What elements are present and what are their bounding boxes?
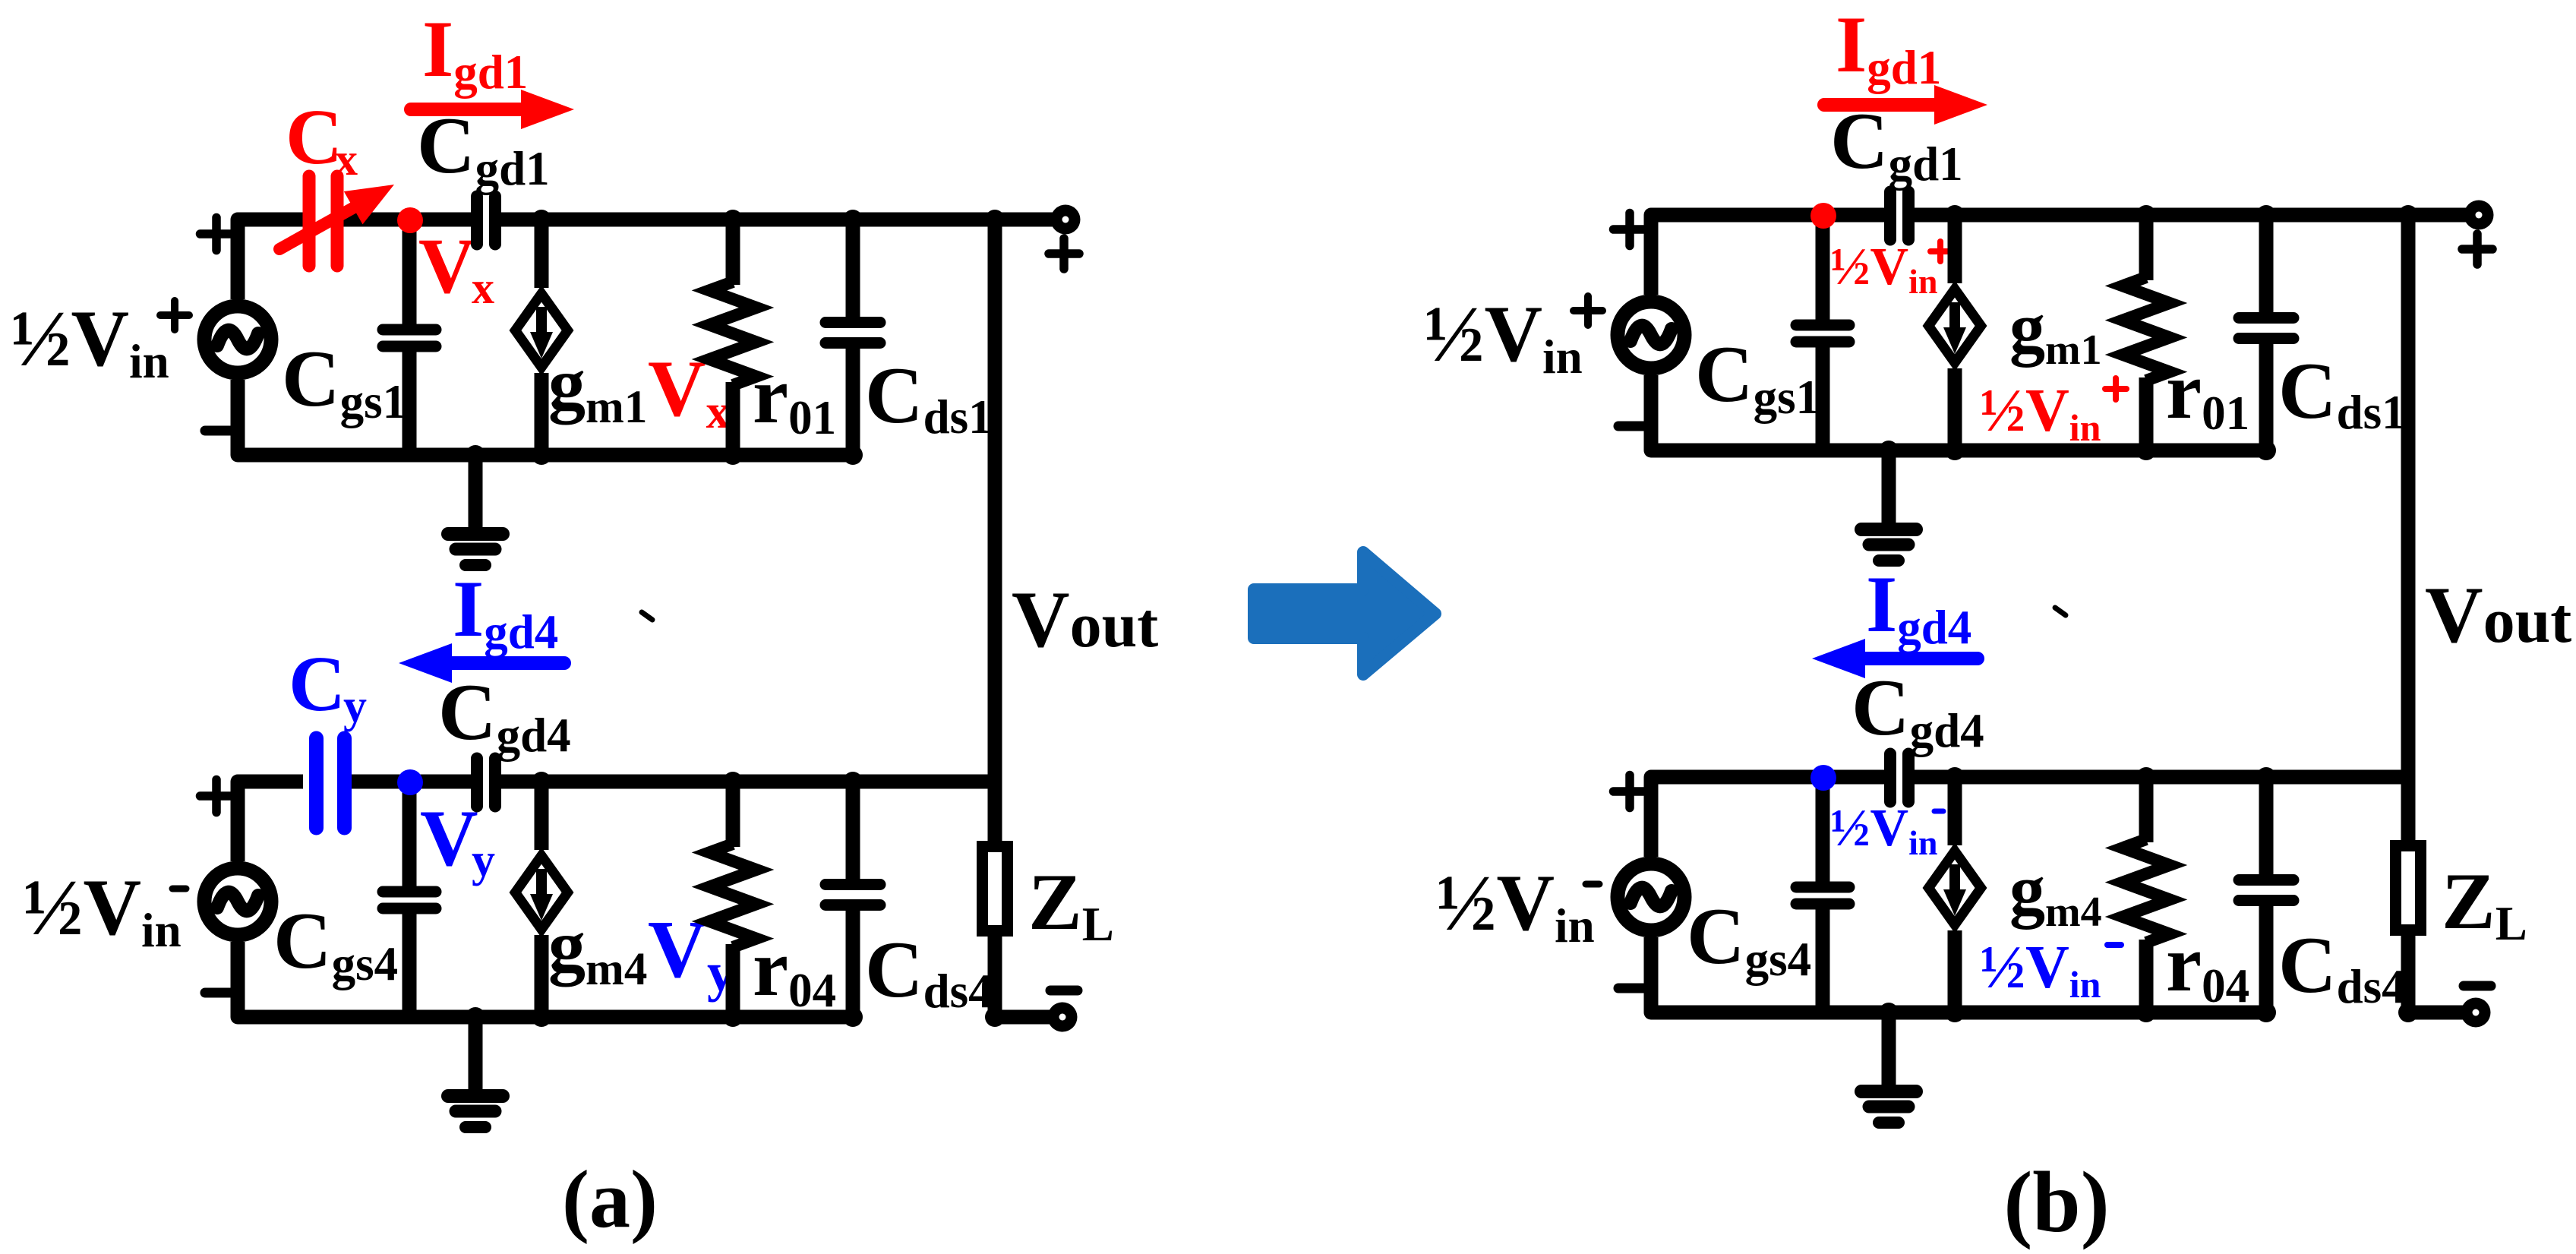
svg-text:gm1: gm1	[548, 343, 647, 433]
wire: top rail of a-circuit M1	[238, 213, 303, 227]
svg-text:Vout: Vout	[2425, 570, 2571, 659]
wire: top rail of a-circuit M4	[238, 775, 303, 789]
capacitor Cx (colored input coupling cap)	[303, 176, 316, 266]
capacitor Cds4	[846, 782, 860, 880]
wire: left branch to source a4	[238, 782, 283, 861]
wire: Vout vertical line (b)	[2401, 215, 2416, 840]
wire: left branch to source b1	[1651, 215, 1697, 295]
capacitor Cds1	[846, 220, 860, 318]
svg-text:ZL: ZL	[1028, 858, 1114, 951]
ground symbol (b4)	[1882, 1012, 1896, 1085]
polarity minus of source	[205, 426, 232, 436]
svg-text:Cds1: Cds1	[2278, 346, 2406, 439]
load impedance ZL (a)	[983, 847, 1008, 931]
polarity plus of source	[1614, 225, 1646, 234]
svg-text:r04: r04	[2166, 919, 2249, 1012]
polarity plus of source	[200, 791, 233, 801]
svg-text:gm1: gm1	[2009, 289, 2102, 374]
output terminal + (b)	[2408, 208, 2479, 223]
capacitor Cgs4	[402, 782, 417, 886]
polarity minus of source	[1618, 422, 1646, 431]
capacitor Cgd4	[1884, 754, 1896, 802]
svg-text:r01: r01	[2166, 346, 2249, 440]
svg-text:Igd1: Igd1	[422, 5, 528, 99]
capacitor Cgs1	[402, 220, 417, 324]
output terminal - (a)	[995, 1010, 1062, 1025]
AC voltage source ½Vin- (b)	[1618, 864, 1684, 930]
capacitor Cds1	[2259, 215, 2274, 314]
resistor r04	[726, 782, 740, 847]
dependent source gm1 stub and diamond	[1948, 215, 1962, 283]
svg-text:r01: r01	[753, 351, 836, 444]
wire: top rail of b-circuit M4	[1651, 770, 1884, 785]
arrow Igd1 (points right)	[411, 103, 521, 116]
svg-text:½Vin: ½Vin	[1424, 289, 1583, 384]
svg-text:r04: r04	[753, 924, 836, 1017]
svg-text:½Vin: ½Vin	[11, 294, 169, 388]
ground symbol (b1)	[1882, 450, 1896, 523]
capacitor Cds4	[2259, 777, 2274, 876]
small tick mark (b)	[2055, 608, 2066, 615]
output terminal - (b)	[2408, 1006, 2476, 1020]
load impedance ZL (b)	[2396, 846, 2421, 930]
svg-text:gm4: gm4	[548, 905, 647, 995]
wire: bottom rail of b-circuit M4	[1651, 1006, 2266, 1020]
svg-text:V: V	[418, 223, 475, 310]
polarity minus of source	[1618, 984, 1646, 993]
node Vx dot	[397, 207, 423, 233]
arrow Igd4 (points left)	[452, 656, 564, 670]
capacitor Cgs4	[1816, 777, 1830, 882]
dependent source gm4 stub and diamond	[1948, 777, 1962, 845]
capacitor Cgd1	[1884, 192, 1896, 240]
svg-text:Cgd4: Cgd4	[1851, 663, 1984, 757]
svg-text:C: C	[286, 93, 343, 181]
AC voltage source ½Vin+ (a)	[204, 306, 271, 373]
svg-text:Cds4: Cds4	[2278, 921, 2406, 1013]
svg-text:C: C	[289, 640, 346, 728]
capacitor Cgd4	[471, 759, 483, 807]
AC voltage source ½Vin+ (b)	[1618, 302, 1684, 368]
output terminal + (a)	[995, 213, 1065, 227]
svg-text:x: x	[335, 134, 358, 185]
AC voltage source ½Vin- (a)	[204, 868, 271, 935]
node Vy dot	[397, 769, 423, 795]
wire: left branch to source a1	[238, 220, 283, 299]
svg-text:gm4: gm4	[2009, 851, 2102, 936]
wire: bottom rail of b-circuit M1	[1651, 444, 2266, 458]
resistor r04	[2139, 777, 2154, 842]
wire: left branch to source b4	[1651, 777, 1697, 857]
svg-text:Igd4: Igd4	[1866, 560, 1971, 654]
polarity plus of source	[200, 229, 233, 238]
capacitor Cgd1	[471, 197, 483, 245]
svg-text:½Vin: ½Vin	[1830, 799, 1937, 862]
wire: top rail of b-circuit M1	[1651, 208, 1884, 223]
wire: bottom rail of a-circuit M1	[238, 448, 853, 463]
arrow Igd1 (points right)	[1824, 98, 1934, 112]
svg-text:½Vin: ½Vin	[1980, 934, 2101, 1006]
svg-text:(a): (a)	[562, 1155, 658, 1245]
resistor r01	[2139, 215, 2154, 280]
svg-text:Vout: Vout	[1012, 575, 1158, 664]
svg-text:y: y	[472, 835, 495, 886]
svg-text:½Vin: ½Vin	[1980, 377, 2101, 449]
svg-text:Cgd4: Cgd4	[438, 668, 571, 762]
svg-text:V: V	[420, 794, 478, 883]
svg-text:Igd1: Igd1	[1836, 0, 1941, 94]
svg-text:ZL: ZL	[2442, 857, 2527, 950]
svg-text:x: x	[472, 263, 494, 313]
svg-text:½Vin: ½Vin	[1436, 858, 1595, 952]
strike-through arrow over Cx	[279, 204, 360, 249]
svg-text:(b): (b)	[2003, 1154, 2109, 1250]
wire: bottom rail of a-circuit M4	[238, 1010, 853, 1025]
polarity minus of source	[205, 988, 232, 998]
small tick mark (a)	[642, 612, 652, 620]
svg-text:Cds1: Cds1	[865, 351, 993, 444]
ground symbol (a4)	[469, 1017, 483, 1090]
node Vy dot	[1810, 765, 1836, 791]
arrow Igd4 (points left)	[1865, 652, 1978, 665]
capacitor Cgs1	[1816, 215, 1830, 320]
svg-text:y: y	[343, 681, 367, 732]
svg-text:Cds4: Cds4	[865, 925, 993, 1018]
big blue transform arrow	[1254, 552, 1435, 674]
ground symbol (a1)	[469, 455, 483, 528]
resistor r01	[726, 220, 740, 285]
capacitor Cy (colored input coupling cap)	[309, 738, 324, 828]
dependent source gm1 stub and diamond	[535, 220, 549, 288]
polarity plus of source	[1614, 787, 1646, 796]
svg-text:Igd4: Igd4	[453, 564, 558, 659]
svg-text:½Vin: ½Vin	[23, 863, 182, 957]
dependent source gm4 stub and diamond	[535, 782, 549, 850]
wire: Vout vertical line (a)	[988, 220, 1002, 841]
node Vx dot	[1810, 203, 1836, 229]
svg-text:½Vin: ½Vin	[1830, 238, 1937, 301]
